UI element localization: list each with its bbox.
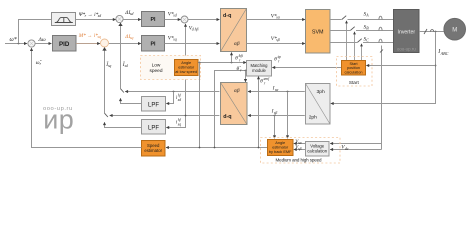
PI controller q-axis <box>142 36 165 52</box>
svg-text:module: module <box>252 68 266 73</box>
sensor loop on Sa line <box>379 16 382 19</box>
wire start test signal c <box>361 44 363 60</box>
svg-text:speed: speed <box>149 68 162 74</box>
svg-text:ω̃r: ω̃r <box>36 60 43 66</box>
svg-text:V*sα: V*sα <box>271 13 281 19</box>
node LPF d input tap <box>173 91 175 93</box>
sensor loop on Sc line <box>379 39 382 42</box>
summing junction hfi injection <box>181 16 188 23</box>
label delta Isq <box>124 34 133 40</box>
svg-text:ΔIsq: ΔIsq <box>124 34 133 40</box>
svg-text:3ph: 3ph <box>317 89 325 95</box>
wire LPF d output to switch <box>121 98 142 103</box>
wire Vsa to SVM <box>247 19 306 21</box>
svg-text:ир: ир <box>43 105 74 135</box>
svg-text:sβ: sβ <box>274 111 277 115</box>
svg-text:ω*: ω* <box>10 37 17 43</box>
wire branch up to flux block <box>19 20 52 44</box>
wire PI2 to dq transform <box>165 43 220 45</box>
label Vsb* <box>271 36 280 42</box>
wire angle into ab-dq transform <box>245 71 247 82</box>
svg-text:ip: ip <box>278 55 281 59</box>
node theta-hfi angle branch <box>231 62 233 64</box>
node omega branch junction <box>18 43 20 45</box>
svg-text:PI: PI <box>150 42 156 48</box>
svg-text:ΔIsd: ΔIsd <box>124 10 133 16</box>
label delta omega <box>38 37 46 43</box>
label theta hfi <box>235 54 243 63</box>
wire Isq direct line <box>110 115 220 117</box>
svg-text:ooo-up.ru: ooo-up.ru <box>397 46 416 51</box>
svg-text:αβ: αβ <box>234 41 240 47</box>
svg-text:SA: SA <box>364 11 370 17</box>
svg-text:hf: hf <box>178 94 182 98</box>
transform alpha-beta to dq <box>221 83 248 125</box>
svg-text:V*sd: V*sd <box>168 11 177 17</box>
wire speed feedback to summing <box>32 48 142 147</box>
svg-text:Start: Start <box>349 80 360 85</box>
wire Isb measured <box>248 115 305 117</box>
svg-text:SB: SB <box>364 24 370 30</box>
label Sc <box>364 36 370 42</box>
svg-text:Vd hfi: Vd hfi <box>189 25 199 31</box>
speed estimator block <box>142 141 166 157</box>
svg-text:Medium and high speed: Medium and high speed <box>276 157 323 162</box>
svg-text:hf: hf <box>178 118 182 122</box>
svg-text:V*sβ: V*sβ <box>271 36 280 42</box>
svg-text:PI: PI <box>150 17 156 23</box>
label Isq bar <box>105 61 111 68</box>
wire angle to speed estimator <box>166 147 268 149</box>
label Sa <box>364 11 370 17</box>
matching module block <box>247 61 272 77</box>
svg-text:LPF: LPF <box>148 125 159 131</box>
svg-text:Īsq: Īsq <box>105 61 111 68</box>
label ihf sq <box>176 118 182 126</box>
wire Isb to back-emf estimator <box>274 116 276 139</box>
svg-text:Īsd: Īsd <box>122 61 128 68</box>
label flux ref to isd* <box>79 12 101 18</box>
svg-text:Vsβ: Vsβ <box>295 146 301 151</box>
wire PID to isq summing <box>76 43 100 45</box>
summing junction isd <box>116 15 123 22</box>
label theta ip <box>274 55 281 64</box>
svg-text:sq: sq <box>178 122 181 126</box>
svg-text:LPF: LPF <box>148 102 159 108</box>
label omega* <box>10 37 17 43</box>
wire Vsb to back-emf estimator <box>294 149 306 151</box>
wire estimator tap into LPF q <box>166 76 185 128</box>
start position calculation block <box>342 61 366 76</box>
wire hfi summing to dq transform <box>188 19 219 21</box>
label torque ref to isq* <box>78 33 101 39</box>
svg-text:Δω: Δω <box>38 37 46 43</box>
wire isq summing to PI2 <box>109 43 141 45</box>
node Isq line junction <box>185 115 187 117</box>
wire Isa to back-emf estimator <box>287 92 289 139</box>
wire SVM gate line Sa with switch <box>330 16 394 20</box>
svg-text:Vsα: Vsα <box>295 140 301 145</box>
svg-text:2ph: 2ph <box>309 115 317 121</box>
svg-text:r: r <box>278 59 280 63</box>
svg-text:M: M <box>452 28 457 34</box>
PI controller d-axis <box>142 12 165 27</box>
svg-text:Inverter: Inverter <box>398 29 416 35</box>
transform 3ph to 2ph <box>306 84 331 125</box>
svg-text:sα: sα <box>275 88 278 92</box>
svg-text:r: r <box>239 58 241 62</box>
label delta Isd <box>124 10 133 16</box>
label Vd hfi <box>189 25 199 31</box>
label Vsq* <box>168 35 177 41</box>
svg-text:emf: emf <box>264 77 270 81</box>
label ihf sd <box>176 94 182 102</box>
watermark logo <box>43 105 74 135</box>
svg-text:sd: sd <box>178 98 181 102</box>
node Isa down tap <box>287 91 289 93</box>
voltage calculation block <box>306 142 330 157</box>
sensor loop on Sb line <box>379 27 382 30</box>
label Vsa <box>295 140 301 145</box>
svg-text:PID: PID <box>59 41 70 48</box>
wire flux block to isd summing <box>76 19 116 21</box>
svg-text:at low speed: at low speed <box>175 69 197 74</box>
svg-text:by back EMF: by back EMF <box>269 149 292 154</box>
svg-text:calculation: calculation <box>345 70 363 74</box>
wire Vdc upper into voltage calc <box>330 143 381 145</box>
svg-text:SC: SC <box>364 36 370 42</box>
wire theta-emf up to matching module <box>258 76 260 147</box>
label theta r <box>237 66 243 72</box>
wire Isq feedback vertical <box>102 47 108 117</box>
svg-text:Ψ*r → i*sd: Ψ*r → i*sd <box>79 12 101 18</box>
inverter block <box>394 10 420 53</box>
low-pass filter d <box>142 97 166 112</box>
wire start test signal a <box>346 21 348 60</box>
node speed line emf junction <box>258 147 260 149</box>
label Isd bar <box>122 61 128 68</box>
svg-text:SVM: SVM <box>312 30 324 36</box>
wire SVM gate line Sb with switch <box>330 27 394 31</box>
label Vsa* <box>271 13 281 19</box>
transform dq to alpha-beta <box>221 9 247 52</box>
wire isd summing to PI1 <box>123 19 141 21</box>
wire Vdc lower into voltage calc <box>330 149 381 151</box>
svg-text:Low: Low <box>152 63 161 69</box>
wire Vdc measurement <box>380 46 383 150</box>
svg-text:r: r <box>264 81 266 85</box>
svg-text:d-q: d-q <box>223 13 231 19</box>
SVM block <box>306 10 331 54</box>
node theta-r transform branch <box>245 70 247 72</box>
medium and high speed dashed box <box>261 138 341 164</box>
flux-weakening block <box>52 13 76 26</box>
label Iabc <box>437 49 448 56</box>
label theta emf <box>260 77 270 86</box>
angle estimator by back EMF block <box>268 140 294 156</box>
label Vdc <box>341 145 349 152</box>
wire phase currents to 3ph block <box>331 32 436 104</box>
node speed line theta junction <box>214 147 216 149</box>
wire tap into LPF d <box>166 92 173 104</box>
summing junction isq <box>101 39 109 47</box>
node current to start branch <box>435 65 437 67</box>
wire angle into dq transform <box>231 52 233 62</box>
svg-text:V*sq: V*sq <box>168 35 177 41</box>
node speed line hfi junction <box>199 147 201 149</box>
wire LPF q output to switch <box>105 122 142 127</box>
svg-text:dc: dc <box>345 147 349 151</box>
wire start position to matching module <box>272 67 341 69</box>
svg-text:calculation: calculation <box>307 148 327 153</box>
summing junction speed error <box>28 40 35 47</box>
svg-text:αβ: αβ <box>234 88 240 94</box>
wire hf injection voltage <box>185 24 187 59</box>
svg-text:ABC: ABC <box>440 51 449 56</box>
low speed dashed box <box>141 56 201 80</box>
wire theta-hfi to matching module <box>198 62 246 64</box>
PID block <box>53 36 77 52</box>
label Sb <box>364 24 370 30</box>
wire PI1 to hfi summing <box>165 19 181 21</box>
label Isa <box>272 86 279 93</box>
motor <box>444 18 466 40</box>
wire SVM gate line Sc with switch <box>330 39 394 43</box>
label Vsd* <box>168 11 177 17</box>
label Isb <box>271 109 278 116</box>
svg-text:estimator: estimator <box>144 148 162 153</box>
label omega tilde r <box>36 60 43 66</box>
node theta-hfi speed branch <box>199 62 201 64</box>
wire currents to start position block <box>366 65 435 67</box>
wire start test signal b <box>354 32 356 60</box>
low-pass filter q <box>142 120 166 135</box>
start dashed box <box>337 57 373 87</box>
wire Isa measured <box>248 91 305 93</box>
wire Isd direct line <box>125 91 219 93</box>
node phase current tap <box>435 31 437 33</box>
svg-text:d-q: d-q <box>223 114 231 120</box>
wire Vsa to back-emf estimator <box>294 143 306 145</box>
wire speed reference input <box>5 43 27 45</box>
watermark site url <box>43 106 73 112</box>
wire inverter to motor <box>419 29 444 34</box>
wire Isd feedback vertical <box>118 23 124 93</box>
angle estimator at low speed block <box>175 60 199 76</box>
wire theta-hfi down to speed line <box>199 63 201 148</box>
label Vsb <box>295 146 301 151</box>
wire Vsb to SVM <box>247 43 306 45</box>
svg-text:M* → i*sq: M* → i*sq <box>78 33 101 39</box>
wire error to PID <box>35 43 51 45</box>
wire theta-r output <box>215 71 247 148</box>
svg-text:hfi: hfi <box>239 54 243 58</box>
node Isb down tap <box>274 115 276 117</box>
